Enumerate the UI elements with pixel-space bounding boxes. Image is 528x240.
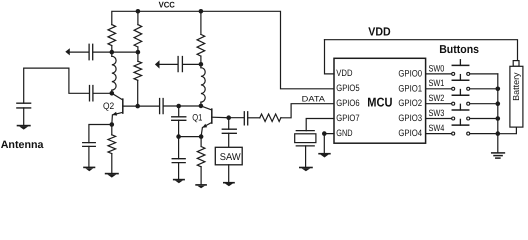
label Q2 (103, 101, 114, 111)
capacitor C7 (172, 159, 185, 163)
svg-text:GPIO0: GPIO0 (398, 68, 422, 78)
svg-text:MCU: MCU (367, 95, 392, 110)
inductor L1 (112, 52, 116, 93)
svg-text:VDD: VDD (368, 25, 391, 39)
resistor R5 (stage2 load) (197, 11, 205, 64)
junction C6 bottom (176, 134, 181, 139)
pin label GPIO0 (398, 68, 422, 78)
capacitor C6 (172, 117, 186, 121)
resistor R4 (emitter) (108, 125, 116, 174)
label Antenna (1, 139, 45, 151)
capacitor C5 (stage2 tap) (178, 57, 182, 72)
ground under crystal (300, 168, 312, 172)
wire B2 to C4 (138, 105, 159, 107)
wire base to C8 (228, 118, 230, 130)
svg-text:GPIO2: GPIO2 (398, 98, 422, 108)
earth ground under bus (492, 153, 505, 158)
svg-text:Q1: Q1 (192, 113, 202, 123)
capacitor C3 (emitter bypass) (83, 143, 96, 147)
pin label GPIO3 (398, 113, 422, 123)
wire C4 to Q1 collector node (164, 105, 201, 107)
junction on VCC rail at R5 (199, 9, 204, 14)
resistor R2 (bias upper) (134, 11, 142, 52)
switch SW4 (426, 119, 498, 135)
node C1 junction (199, 62, 204, 67)
label SW4 (429, 123, 445, 133)
label SW0 (429, 63, 445, 73)
ground under C3 (84, 167, 95, 171)
svg-text:GPIO6: GPIO6 (336, 98, 359, 108)
off-page arrow at C1 (65, 48, 70, 55)
net label VDD (368, 25, 391, 39)
node Q2 collector junction (110, 91, 115, 96)
ground under SAW (224, 183, 234, 187)
node B1 junction (136, 50, 141, 55)
label SW3 (429, 108, 445, 118)
wire C6 to node (178, 120, 180, 136)
wire C6 branch (178, 106, 180, 117)
junction GND pin (322, 131, 327, 136)
wire emitter to bypass cap (89, 125, 112, 143)
wire antenna loop (24, 68, 112, 103)
ground under C7 (174, 180, 184, 184)
node A1 junction (110, 50, 115, 55)
pin label GPIO6 (336, 98, 359, 108)
wire C8 to SAW (228, 133, 230, 147)
junction Q1 base node (226, 115, 231, 120)
SAW filter U2 box (215, 147, 242, 165)
battery BT1 body (510, 66, 523, 127)
transistor Q1 base bar (211, 109, 213, 123)
svg-text:SW2: SW2 (429, 93, 445, 103)
svg-text:VCC: VCC (159, 0, 175, 9)
junction bus (496, 131, 501, 136)
transistor Q2 base bar (122, 99, 124, 113)
wire VCC rail with feeds to R1 and MCU GPIO5 (112, 11, 334, 89)
node Q1 collector junction (199, 104, 204, 109)
label Buttons (439, 44, 479, 56)
switch SW3 (426, 104, 498, 120)
transistor Q2 emitter lead with arrow (112, 112, 123, 125)
svg-text:GPIO5: GPIO5 (336, 83, 359, 93)
pin label VDD (336, 68, 352, 78)
wire crystal to ground (305, 146, 307, 168)
pin label GPIO2 (398, 98, 422, 108)
wire VDD pin to rail (325, 40, 335, 74)
wire R1 to node A1 (111, 46, 113, 53)
resistor R7 (data series) (260, 114, 281, 122)
MCU U1 box (334, 58, 426, 143)
wire C3 to ground (88, 146, 90, 167)
resistor R3 (bias lower) (134, 52, 142, 106)
pin label GPIO4 (398, 128, 422, 138)
transistor Q1 base lead (212, 116, 229, 119)
junction Q1 emitter node (199, 134, 204, 139)
wire antenna cap to ground (23, 108, 25, 126)
capacitor C2 (antenna coupling) (90, 86, 93, 101)
svg-text:GPIO1: GPIO1 (398, 83, 422, 93)
label Battery (511, 72, 521, 101)
transistor Q2 base lead (123, 105, 138, 107)
junction bus (496, 101, 501, 106)
wire SAW to ground (228, 165, 230, 183)
svg-text:Q2: Q2 (103, 101, 114, 111)
pin label GPIO5 (336, 83, 359, 93)
wire C9 to R7 (248, 117, 259, 119)
capacitor C9 (244, 112, 247, 125)
capacitor C_ant (antenna) (17, 103, 31, 108)
wire VDD rail (325, 40, 518, 61)
svg-text:Battery: Battery (511, 72, 521, 101)
ground under R4 (106, 174, 118, 178)
wire to C7 (178, 137, 180, 159)
svg-text:SW3: SW3 (429, 108, 445, 118)
switch SW1 (426, 75, 498, 91)
transistor Q1 emitter lead with arrow (201, 122, 212, 136)
inductor L2 (201, 64, 205, 106)
pin label GPIO7 (336, 113, 359, 123)
resistor R1 collector load (108, 25, 116, 46)
label SAW (220, 152, 241, 163)
pin label GND (336, 128, 353, 138)
label MCU (367, 95, 392, 110)
svg-text:SW4: SW4 (429, 123, 445, 133)
crystal Y1 (295, 131, 316, 146)
svg-text:Antenna: Antenna (1, 139, 45, 151)
wire emitter row (179, 136, 202, 138)
label Q1 (192, 113, 202, 123)
wire switch ground bus (497, 74, 499, 153)
svg-text:DATA: DATA (302, 95, 326, 104)
svg-text:GND: GND (336, 128, 353, 138)
switch SW0 (426, 60, 498, 76)
transistor Q2 collector lead (112, 93, 123, 100)
ground under GND pin (319, 154, 330, 158)
label SW2 (429, 93, 445, 103)
svg-text:SW0: SW0 (429, 63, 445, 73)
ground under R6 (196, 185, 206, 188)
transistor Q1 collector lead (201, 106, 212, 110)
capacitor C4 (interstage) (160, 99, 164, 114)
capacitor C1 (tap coupling) (89, 44, 93, 59)
svg-text:SAW: SAW (220, 152, 241, 163)
capacitor C8 (222, 129, 236, 133)
wire battery to ground bus (498, 127, 517, 134)
wire node A1 row (70, 51, 138, 53)
label SW1 (429, 78, 445, 88)
svg-text:GPIO7: GPIO7 (336, 113, 359, 123)
switch SW2 (426, 90, 498, 106)
node Q2 emitter junction (110, 122, 115, 127)
junction bus (496, 116, 501, 121)
node B2 junction (Q2 base) (135, 104, 140, 109)
wire C7 to ground (178, 163, 180, 180)
svg-text:SW1: SW1 (429, 78, 445, 88)
pin label GPIO1 (398, 83, 422, 93)
off-page arrow at C5 (155, 60, 160, 68)
net label DATA (302, 95, 326, 104)
wire R7 to MCU GPIO6 (281, 104, 334, 118)
battery BT1 terminal (513, 61, 519, 67)
svg-text:GPIO3: GPIO3 (398, 113, 422, 123)
junction at C6 top (176, 104, 181, 109)
svg-text:Buttons: Buttons (439, 44, 479, 56)
wire base to C9 (229, 117, 244, 119)
resistor R6 (Q1 emitter) (197, 137, 205, 185)
junction on VCC rail at R2 (136, 9, 141, 14)
wire GPIO7 to crystal (306, 119, 334, 131)
svg-text:GPIO4: GPIO4 (398, 128, 422, 138)
svg-text:VDD: VDD (336, 68, 352, 78)
wire GND pin (324, 134, 334, 154)
junction bus (496, 87, 501, 92)
net label VCC (159, 0, 175, 9)
wire C1 tap row stage2 (159, 63, 201, 65)
ground under antenna (18, 126, 30, 130)
